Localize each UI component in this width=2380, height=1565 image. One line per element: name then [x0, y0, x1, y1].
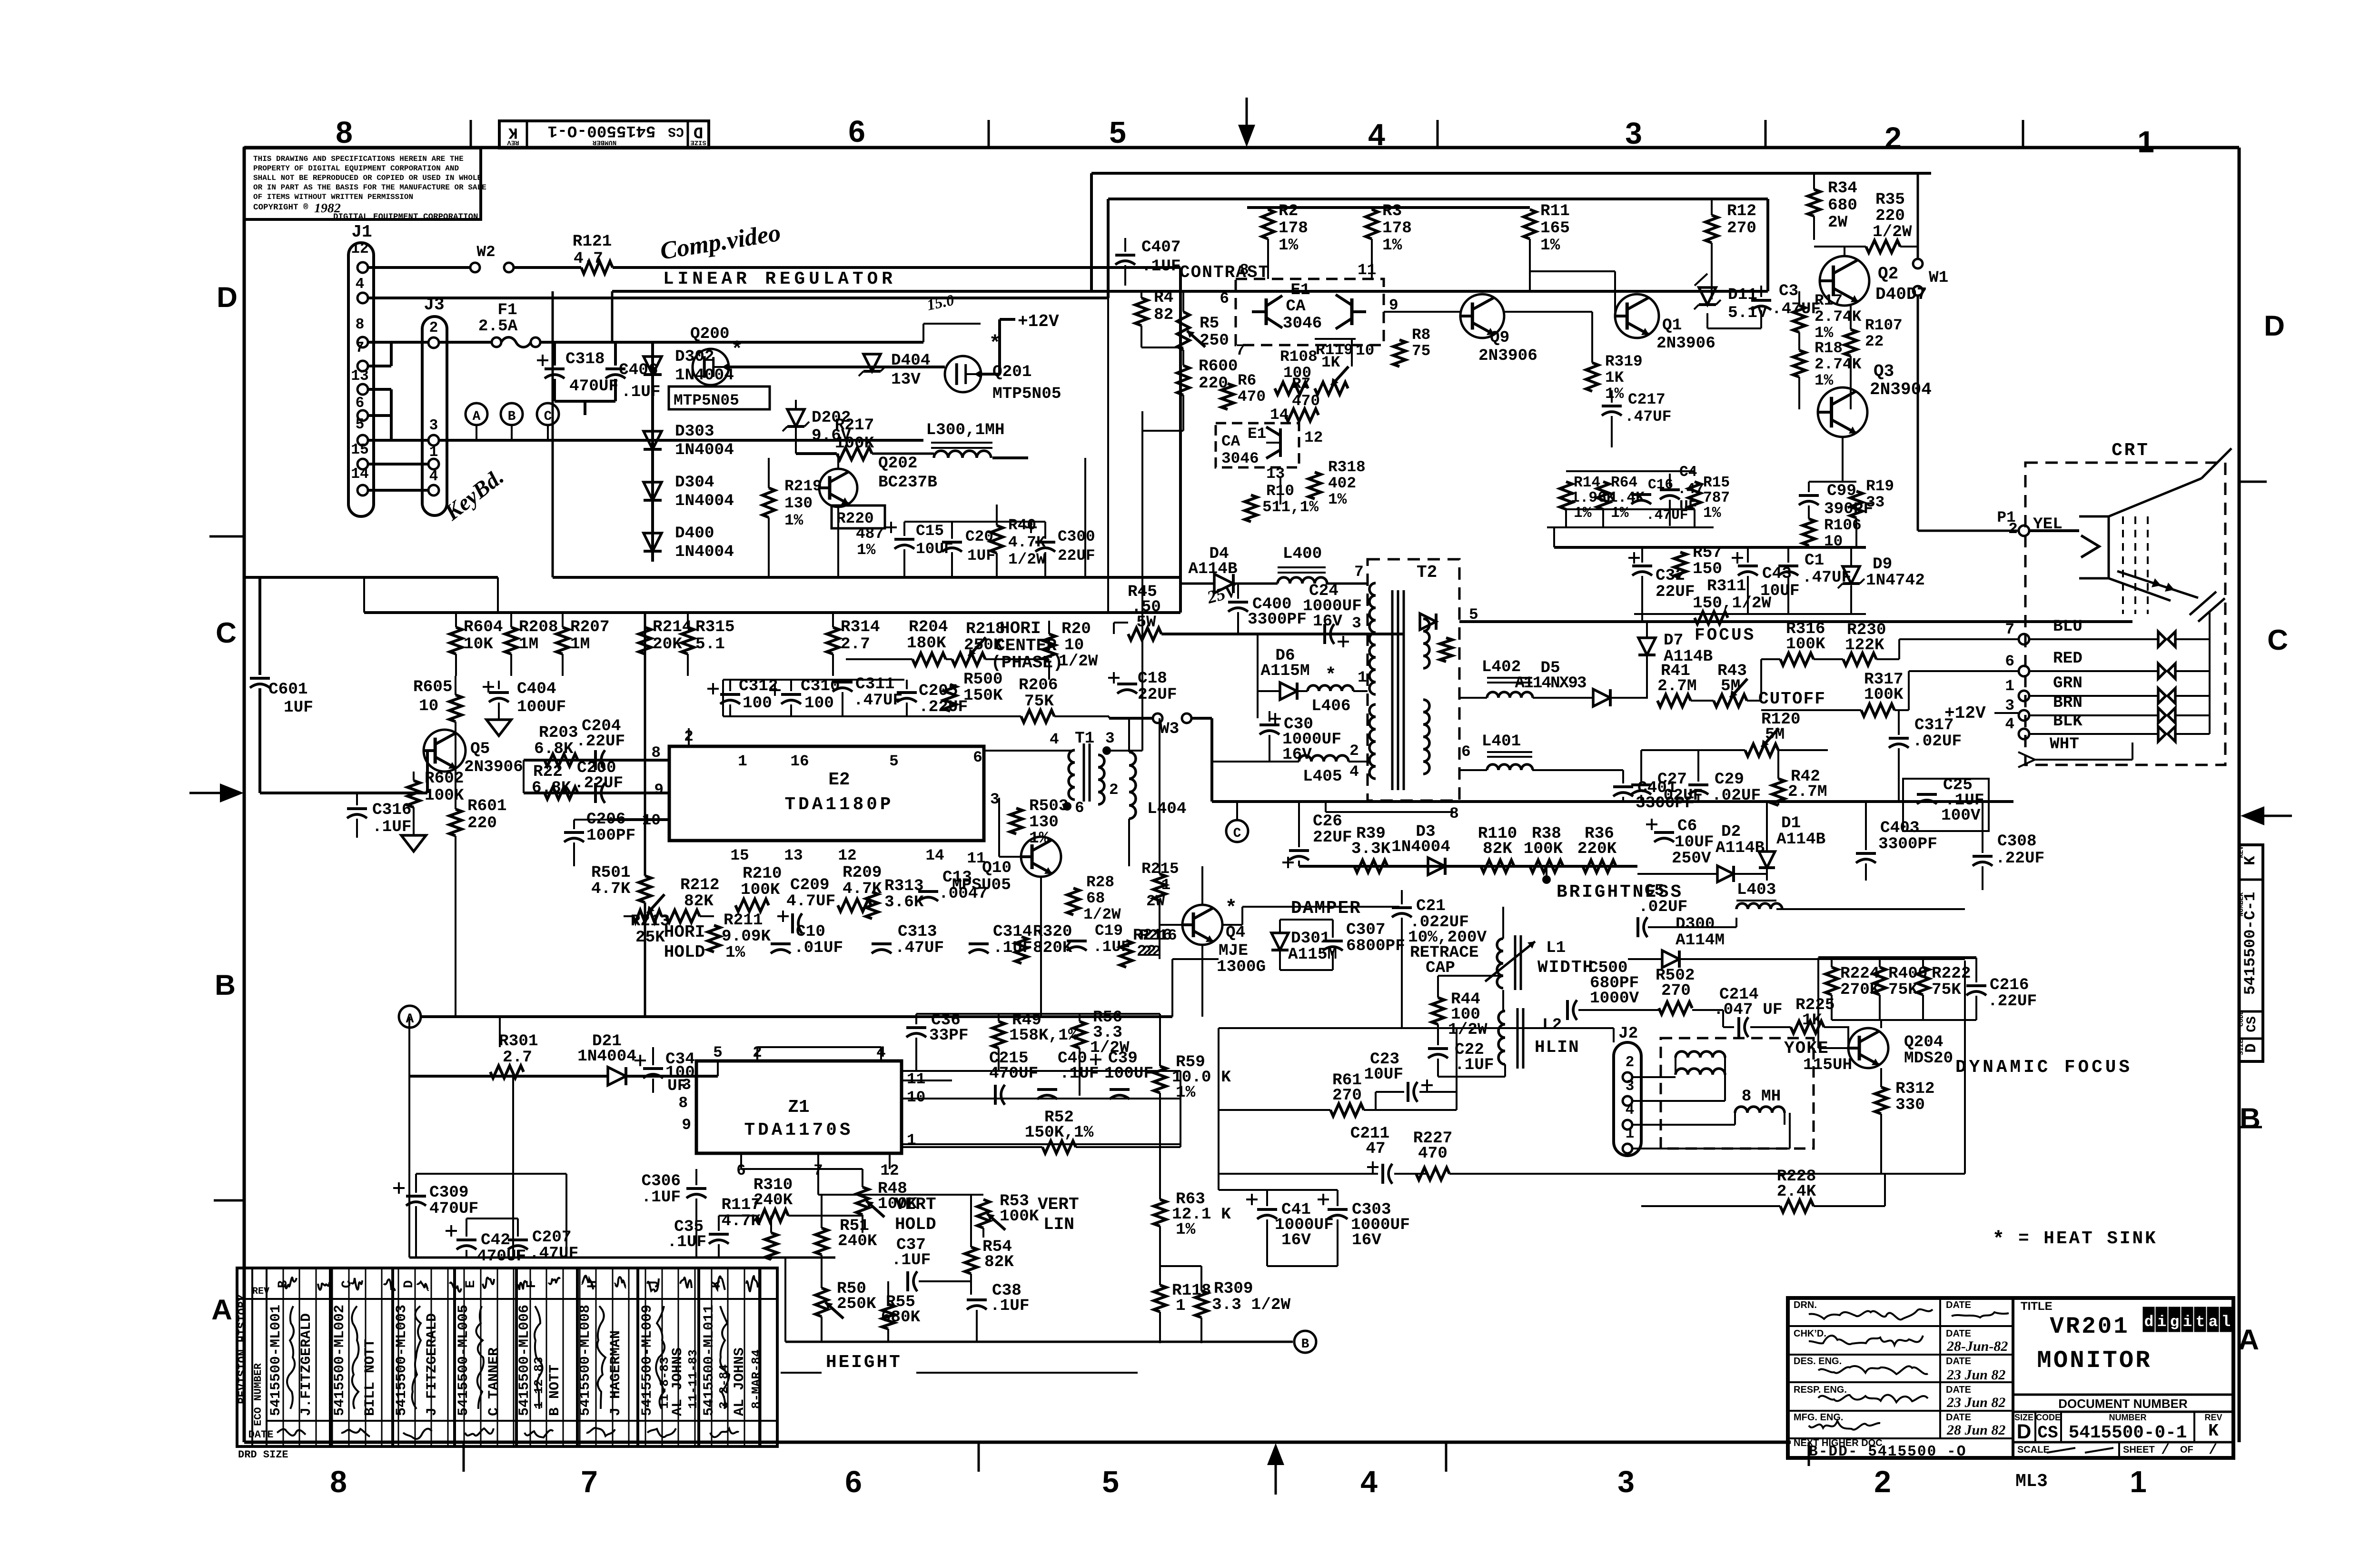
svg-text:.01UF: .01UF: [794, 939, 843, 957]
svg-text:2: 2: [1109, 781, 1119, 799]
svg-text:2: 2: [1874, 1465, 1891, 1499]
svg-text:4: 4: [1360, 1465, 1378, 1499]
svg-text:NUMBER: NUMBER: [2109, 1413, 2147, 1422]
svg-text:6.8K: 6.8K: [534, 740, 574, 758]
svg-text:22: 22: [1137, 942, 1156, 961]
svg-text:1: 1: [2137, 125, 2154, 159]
svg-text:1%: 1%: [1703, 505, 1721, 522]
svg-text:1.4K: 1.4K: [1609, 490, 1645, 506]
svg-text:1%: 1%: [1382, 236, 1402, 255]
svg-text:25K: 25K: [635, 928, 665, 947]
svg-text:82: 82: [1154, 306, 1173, 324]
svg-text:470UF: 470UF: [429, 1199, 478, 1218]
svg-text:DRN.: DRN.: [1794, 1300, 1817, 1310]
svg-text:J1: J1: [351, 222, 372, 242]
svg-text:2.7M: 2.7M: [1788, 782, 1827, 801]
svg-text:15.0: 15.0: [925, 292, 956, 314]
svg-text:C: C: [2267, 624, 2288, 656]
svg-text:13V: 13V: [891, 370, 921, 389]
svg-text:5415500-ML002: 5415500-ML002: [332, 1305, 348, 1416]
svg-text:R18: R18: [1815, 339, 1843, 357]
svg-text:W1: W1: [1929, 268, 1948, 287]
svg-text:4: 4: [1050, 731, 1059, 748]
svg-text:R17: R17: [1815, 292, 1843, 309]
svg-text:AL JOHNS: AL JOHNS: [732, 1347, 748, 1416]
svg-text:180K: 180K: [907, 634, 946, 653]
svg-text:1: 1: [1626, 1126, 1635, 1142]
svg-text:B-DD- 5415500 -O: B-DD- 5415500 -O: [1809, 1444, 1966, 1460]
svg-text:3: 3: [682, 1076, 691, 1094]
svg-text:R7: R7: [1292, 375, 1310, 393]
svg-text:1: 1: [2005, 677, 2014, 695]
svg-text:1K: 1K: [1605, 369, 1624, 386]
svg-text:4: 4: [2005, 715, 2014, 733]
svg-text:REV: REV: [507, 139, 519, 146]
svg-text:13: 13: [784, 847, 803, 864]
svg-text:CUTOFF: CUTOFF: [1758, 689, 1826, 709]
svg-text:.02UF: .02UF: [1913, 732, 1962, 751]
svg-text:2: 2: [1349, 742, 1359, 760]
svg-text:C19: C19: [1095, 922, 1123, 940]
svg-text:9: 9: [682, 1116, 691, 1134]
svg-text:D: D: [694, 122, 704, 141]
svg-text:C312: C312: [739, 677, 778, 695]
svg-text:3: 3: [1626, 1078, 1635, 1095]
svg-text:10UF: 10UF: [1364, 1065, 1403, 1084]
svg-text:i: i: [2157, 1313, 2167, 1331]
svg-text:75K: 75K: [1932, 981, 1961, 999]
svg-text:CA: CA: [1221, 433, 1240, 450]
svg-text:8: 8: [336, 115, 353, 149]
svg-text:.47UF: .47UF: [853, 691, 902, 710]
svg-text:.47UF: .47UF: [529, 1244, 578, 1263]
svg-text:CRT: CRT: [2112, 441, 2150, 461]
svg-text:150K: 150K: [963, 686, 1003, 705]
svg-text:8: 8: [678, 1094, 688, 1112]
svg-text:3.3 1/2W: 3.3 1/2W: [1212, 1296, 1290, 1314]
svg-text:DATE: DATE: [1946, 1328, 1971, 1339]
svg-text:HLIN: HLIN: [1535, 1038, 1580, 1057]
svg-text:6: 6: [1461, 743, 1471, 761]
svg-text:D304: D304: [675, 473, 714, 492]
svg-text:1%: 1%: [857, 541, 876, 559]
svg-text:R217: R217: [835, 416, 874, 435]
svg-text:ECO NUMBER: ECO NUMBER: [252, 1363, 264, 1426]
svg-text:8: 8: [356, 317, 365, 333]
svg-text:DATE: DATE: [1946, 1412, 1971, 1423]
svg-text:5.1: 5.1: [695, 635, 725, 654]
svg-text:t: t: [2196, 1313, 2205, 1331]
svg-text:33PF: 33PF: [929, 1026, 969, 1045]
svg-text:C601: C601: [268, 680, 308, 699]
svg-text:L406: L406: [1311, 697, 1351, 715]
svg-text:1M: 1M: [519, 635, 538, 654]
svg-text:6: 6: [2005, 653, 2014, 670]
svg-text:3046: 3046: [1283, 314, 1322, 333]
svg-text:MONITOR: MONITOR: [2037, 1347, 2152, 1375]
svg-text:Comp.video: Comp.video: [658, 219, 783, 265]
svg-text:B: B: [1301, 1337, 1309, 1352]
svg-text:1%: 1%: [784, 512, 803, 529]
svg-text:C3: C3: [1779, 282, 1798, 300]
svg-text:MTP5N05: MTP5N05: [992, 385, 1061, 403]
svg-text:R34: R34: [1828, 179, 1857, 198]
svg-text:CS: CS: [668, 124, 684, 139]
svg-text:E: E: [464, 1280, 478, 1288]
svg-text:REVISION HISTORY: REVISION HISTORY: [237, 1294, 249, 1404]
svg-text:SIZE: SIZE: [690, 139, 706, 146]
svg-text:WIDTH: WIDTH: [1537, 958, 1594, 977]
svg-text:100K: 100K: [1786, 635, 1825, 654]
svg-text:5: 5: [1102, 1465, 1119, 1499]
svg-text:9: 9: [654, 781, 664, 799]
svg-text:150,1/2W: 150,1/2W: [1693, 594, 1771, 613]
svg-text:R601: R601: [467, 797, 507, 815]
svg-text:100UF: 100UF: [1104, 1064, 1153, 1083]
svg-text:T2: T2: [1417, 563, 1437, 582]
svg-text:.1UF: .1UF: [892, 1251, 931, 1269]
svg-text:J.FITZGERALD: J.FITZGERALD: [298, 1313, 315, 1416]
svg-text:16: 16: [790, 753, 809, 770]
svg-text:11: 11: [907, 1070, 925, 1088]
svg-text:240K: 240K: [838, 1232, 877, 1250]
svg-text:.47UF: .47UF: [1772, 300, 1821, 318]
svg-text:R64: R64: [1611, 475, 1637, 491]
svg-text:DATE: DATE: [248, 1429, 274, 1441]
svg-text:DATE: DATE: [1946, 1385, 1971, 1395]
svg-text:1/2W: 1/2W: [1008, 551, 1046, 568]
svg-text:L2: L2: [1542, 1016, 1562, 1034]
svg-text:100V: 100V: [1941, 806, 1981, 825]
svg-text:2.74K: 2.74K: [1815, 308, 1862, 326]
svg-text:A: A: [2238, 1323, 2259, 1356]
svg-text:1%: 1%: [1605, 385, 1624, 403]
svg-text:SCALE: SCALE: [2017, 1445, 2050, 1455]
svg-text:100K: 100K: [1864, 685, 1904, 704]
svg-text:i: i: [2183, 1313, 2192, 1331]
svg-text:R121: R121: [573, 232, 612, 251]
svg-text:787: 787: [1703, 490, 1730, 506]
svg-text:C1: C1: [1805, 551, 1824, 570]
svg-text:2: 2: [1884, 121, 1902, 155]
svg-text:402: 402: [1328, 475, 1356, 492]
svg-text:B: B: [508, 409, 516, 424]
svg-text:82K: 82K: [984, 1253, 1014, 1271]
svg-text:6.8K: 6.8K: [532, 779, 571, 797]
svg-text:.02UF: .02UF: [1654, 786, 1703, 805]
svg-text:3: 3: [990, 791, 1000, 808]
svg-text:8: 8: [1240, 261, 1249, 279]
svg-text:Q2: Q2: [1878, 264, 1898, 284]
svg-text:R208: R208: [519, 618, 558, 636]
svg-text:.22UF: .22UF: [1988, 992, 2037, 1010]
svg-text:2.74K: 2.74K: [1815, 356, 1862, 373]
svg-text:5415500-ML005: 5415500-ML005: [456, 1305, 472, 1416]
svg-text:16V: 16V: [1352, 1231, 1381, 1249]
svg-text:158K,1%: 158K,1%: [1009, 1026, 1078, 1045]
svg-text:L300,1MH: L300,1MH: [926, 421, 1004, 439]
svg-text:R15: R15: [1703, 475, 1730, 491]
svg-text:1/2W: 1/2W: [1448, 1020, 1487, 1039]
svg-text:5415500-ML006: 5415500-ML006: [516, 1305, 533, 1416]
svg-text:DES. ENG.: DES. ENG.: [1794, 1356, 1842, 1367]
svg-text:16V: 16V: [1313, 612, 1342, 631]
svg-text:5: 5: [889, 753, 899, 770]
svg-text:ML3: ML3: [2015, 1472, 2048, 1492]
svg-text:DIGITAL EQUIPMENT CORPORATION: DIGITAL EQUIPMENT CORPORATION: [333, 212, 478, 222]
svg-text:470UF: 470UF: [989, 1064, 1038, 1083]
svg-text:/: /: [2209, 1442, 2217, 1458]
svg-text:J HAGERMAN: J HAGERMAN: [608, 1330, 624, 1416]
svg-text:22UF: 22UF: [1138, 685, 1177, 704]
svg-text:5: 5: [1109, 115, 1126, 149]
svg-text:100PF: 100PF: [586, 826, 635, 845]
svg-text:.1UF: .1UF: [990, 1297, 1030, 1315]
svg-text:4: 4: [429, 468, 438, 485]
svg-text:10: 10: [642, 812, 661, 829]
svg-text:.22UF: .22UF: [576, 732, 625, 751]
svg-text:1: 1: [1176, 1297, 1186, 1315]
svg-text:C4: C4: [1679, 464, 1697, 481]
svg-text:5: 5: [356, 416, 365, 433]
svg-text:8: 8: [330, 1465, 347, 1499]
svg-text:2N3906: 2N3906: [1656, 334, 1716, 353]
svg-text:R12: R12: [1727, 202, 1756, 220]
svg-text:1N4004: 1N4004: [1391, 838, 1450, 856]
svg-text:100: 100: [743, 694, 772, 713]
svg-text:D: D: [217, 281, 238, 313]
svg-text:Q4: Q4: [1226, 923, 1245, 942]
svg-text:250V: 250V: [1672, 849, 1711, 868]
svg-text:A114B: A114B: [1188, 560, 1237, 578]
svg-text:1%: 1%: [725, 943, 745, 962]
svg-text:10: 10: [1356, 342, 1374, 359]
svg-text:DYNAMIC FOCUS: DYNAMIC FOCUS: [1955, 1058, 2132, 1078]
svg-text:5M: 5M: [1721, 677, 1740, 695]
svg-text:1%: 1%: [1574, 505, 1592, 522]
svg-text:A: A: [211, 1293, 232, 1326]
svg-text:22: 22: [1865, 333, 1884, 350]
svg-text:C300: C300: [1058, 528, 1095, 545]
svg-text:HOLD: HOLD: [895, 1215, 936, 1234]
svg-text:1: 1: [738, 753, 747, 770]
svg-text:2N3906: 2N3906: [464, 758, 523, 776]
svg-text:6: 6: [845, 1465, 862, 1499]
svg-text:Q5: Q5: [470, 740, 490, 758]
svg-text:3: 3: [2005, 697, 2014, 714]
svg-text:W2: W2: [476, 243, 495, 261]
svg-text:C15: C15: [916, 522, 944, 540]
svg-text:4.7: 4.7: [574, 249, 603, 268]
svg-text:47: 47: [1366, 1139, 1385, 1158]
svg-text:L404: L404: [1147, 800, 1187, 818]
svg-text:R315: R315: [695, 618, 735, 636]
svg-text:C318: C318: [565, 350, 605, 368]
svg-text:VERT: VERT: [895, 1195, 936, 1214]
svg-text:*: *: [733, 337, 741, 359]
svg-text:680: 680: [1828, 196, 1857, 215]
svg-text:15: 15: [730, 847, 749, 864]
svg-text:F: F: [525, 1280, 539, 1288]
svg-text:.22UF: .22UF: [574, 774, 623, 792]
svg-text:R40: R40: [1008, 516, 1036, 534]
svg-text:.22UF: .22UF: [1995, 849, 2044, 868]
svg-text:R3: R3: [1382, 202, 1402, 220]
svg-text:R2: R2: [1279, 202, 1298, 220]
svg-text:D: D: [2017, 1420, 2032, 1443]
svg-text:OF ITEMS WITHOUT WRITTEN PERMI: OF ITEMS WITHOUT WRITTEN PERMISSION: [253, 193, 413, 201]
svg-text:100K: 100K: [1000, 1207, 1039, 1226]
svg-text:A114B: A114B: [1716, 839, 1765, 857]
svg-text:68: 68: [1086, 890, 1105, 907]
svg-text:20K: 20K: [653, 635, 682, 654]
svg-text:D404: D404: [891, 351, 931, 370]
svg-text:23 Jun 82: 23 Jun 82: [1946, 1367, 2005, 1383]
svg-text:Q3: Q3: [1874, 362, 1894, 381]
svg-text:CA: CA: [1286, 297, 1306, 316]
svg-text:R8: R8: [1412, 326, 1430, 344]
svg-text:1K: 1K: [1321, 354, 1340, 371]
svg-text:DRD SIZE: DRD SIZE: [238, 1449, 288, 1461]
svg-text:A114M: A114M: [1676, 931, 1725, 950]
svg-text:CODE: CODE: [2036, 1413, 2061, 1422]
svg-text:K: K: [2208, 1421, 2219, 1441]
svg-text:3: 3: [1105, 730, 1115, 747]
svg-text:DOCUMENT NUMBER: DOCUMENT NUMBER: [2058, 1397, 2188, 1411]
svg-text:1%: 1%: [1611, 505, 1629, 522]
svg-text:C217: C217: [1628, 391, 1666, 408]
svg-text:11: 11: [1358, 261, 1376, 279]
svg-text:1/2W: 1/2W: [1083, 906, 1121, 923]
svg-text:MDS20: MDS20: [1904, 1049, 1953, 1068]
svg-text:C310: C310: [801, 677, 840, 695]
svg-text:R604: R604: [464, 618, 503, 636]
svg-text:L1: L1: [1546, 939, 1566, 957]
svg-text:R5: R5: [1200, 314, 1219, 333]
svg-text:1: 1: [2130, 1465, 2147, 1499]
svg-text:23 Jun 82: 23 Jun 82: [1946, 1395, 2005, 1410]
svg-text:T1: T1: [1075, 729, 1094, 748]
svg-text:12: 12: [351, 241, 368, 258]
svg-text:RED: RED: [2053, 649, 2082, 668]
svg-text:6800PF: 6800PF: [1346, 937, 1405, 955]
svg-text:28-Jun-82: 28-Jun-82: [1946, 1338, 2008, 1354]
svg-text:12: 12: [1304, 429, 1323, 446]
svg-text:REV: REV: [252, 1286, 269, 1297]
svg-text:6: 6: [973, 749, 982, 766]
svg-text:1N4004: 1N4004: [675, 441, 734, 459]
svg-text:4.7K: 4.7K: [721, 1212, 761, 1230]
svg-text:3: 3: [429, 417, 438, 434]
svg-text:C407: C407: [1141, 238, 1181, 257]
svg-text:C316: C316: [372, 801, 412, 819]
svg-text:7: 7: [356, 340, 365, 357]
svg-text:165: 165: [1540, 219, 1570, 238]
svg-text:C404: C404: [517, 680, 556, 698]
svg-text:OR IN PART AS THE BASIS FOR TH: OR IN PART AS THE BASIS FOR THE MANUFACT…: [253, 183, 486, 192]
svg-text:820K: 820K: [1033, 939, 1072, 957]
svg-text:TITLE: TITLE: [2021, 1300, 2053, 1313]
svg-text:1/2W: 1/2W: [1873, 223, 1912, 241]
svg-text:100K: 100K: [741, 881, 780, 899]
svg-text:J2: J2: [1618, 1024, 1638, 1043]
svg-text:OF: OF: [2180, 1445, 2193, 1455]
svg-text:100: 100: [804, 694, 834, 713]
svg-text:2: 2: [429, 320, 438, 337]
svg-text:330: 330: [1895, 1096, 1925, 1114]
svg-text:7: 7: [1354, 563, 1364, 581]
svg-text:*: *: [1327, 663, 1335, 684]
svg-text:7: 7: [1236, 342, 1245, 359]
svg-text:.02UF: .02UF: [1712, 786, 1761, 805]
svg-text:R11: R11: [1540, 202, 1570, 220]
svg-text:1N4004: 1N4004: [675, 492, 734, 510]
svg-text:178: 178: [1382, 219, 1412, 238]
svg-text:SIZE: SIZE: [2238, 1039, 2245, 1055]
svg-text:10: 10: [907, 1089, 925, 1106]
svg-text:HORI: HORI: [1000, 619, 1041, 638]
svg-text:7: 7: [581, 1465, 598, 1499]
svg-text:+12V: +12V: [1944, 703, 1986, 723]
svg-text:4: 4: [1368, 118, 1385, 152]
svg-text:3.6K: 3.6K: [884, 893, 924, 911]
svg-text:R311: R311: [1707, 577, 1746, 595]
svg-text:R600: R600: [1199, 357, 1238, 376]
svg-text:22UF: 22UF: [1313, 828, 1352, 847]
svg-text:3300PF: 3300PF: [1248, 610, 1307, 629]
svg-text:REV: REV: [2204, 1413, 2222, 1422]
svg-text:LIN: LIN: [1043, 1215, 1074, 1234]
svg-text:SHEET: SHEET: [2123, 1445, 2155, 1455]
svg-text:11-11-83: 11-11-83: [686, 1349, 700, 1409]
svg-text:1UF: 1UF: [284, 698, 313, 717]
svg-text:A114NX93: A114NX93: [1515, 674, 1586, 693]
svg-text:5415500-0-1: 5415500-0-1: [2069, 1423, 2187, 1443]
svg-text:.1UF: .1UF: [1455, 1056, 1494, 1074]
svg-text:PROPERTY OF DIGITAL EQUIPMENT: PROPERTY OF DIGITAL EQUIPMENT CORPORATIO…: [253, 164, 459, 173]
svg-text:CS: CS: [2245, 1016, 2260, 1032]
svg-text:HOLD: HOLD: [664, 942, 705, 962]
svg-text:15: 15: [351, 442, 368, 458]
svg-text:R108: R108: [1280, 348, 1318, 366]
svg-text:12: 12: [838, 847, 856, 864]
svg-text:.1UF: .1UF: [372, 818, 412, 836]
svg-text:BILL NOTT: BILL NOTT: [362, 1339, 378, 1416]
svg-text:75: 75: [1412, 342, 1430, 360]
svg-text:14: 14: [925, 847, 944, 864]
svg-text:VERT: VERT: [1038, 1195, 1079, 1214]
svg-text:C: C: [544, 409, 552, 424]
svg-text:MFG. ENG.: MFG. ENG.: [1794, 1412, 1843, 1423]
svg-text:3: 3: [1352, 614, 1361, 632]
svg-text:14: 14: [1270, 406, 1289, 424]
svg-text:1%: 1%: [1328, 491, 1347, 508]
svg-text:2W: 2W: [1828, 213, 1848, 232]
svg-text:AL JOHNS: AL JOHNS: [670, 1347, 686, 1416]
svg-text:J FITZGERALD: J FITZGERALD: [424, 1313, 440, 1416]
svg-text:7: 7: [2005, 621, 2014, 638]
svg-text:511,1%: 511,1%: [1262, 498, 1319, 516]
svg-text:C16: C16: [1648, 476, 1673, 493]
svg-text:470: 470: [1238, 388, 1266, 406]
svg-text:.1UF: .1UF: [1141, 257, 1181, 276]
svg-text:KeyBd.: KeyBd.: [440, 465, 508, 526]
svg-text:/: /: [2161, 1442, 2170, 1458]
svg-text:250K: 250K: [837, 1295, 876, 1313]
svg-text:1000V: 1000V: [1590, 989, 1639, 1008]
svg-text:5415500-ML011: 5415500-ML011: [701, 1305, 717, 1416]
svg-text:a: a: [2209, 1313, 2218, 1331]
